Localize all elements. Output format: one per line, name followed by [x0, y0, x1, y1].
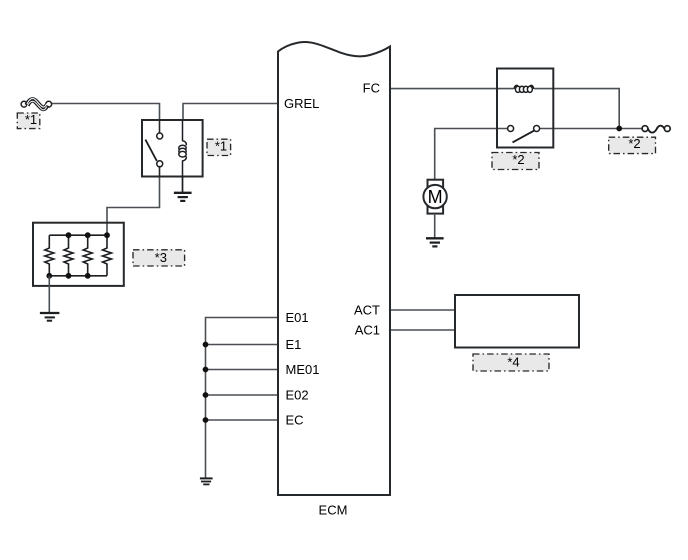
wire EC — [206, 419, 279, 421]
resistor R-b — [64, 235, 73, 276]
motor M1 housing — [428, 180, 444, 214]
ground (E rail) — [200, 478, 213, 484]
svg-text:M: M — [428, 187, 443, 207]
node EC junction — [203, 417, 209, 423]
fusible link *1 right terminal — [46, 101, 52, 107]
wire relay switch to resistor pack — [107, 177, 160, 236]
fuse *2 element — [648, 126, 665, 133]
svg-text:*4: *4 — [507, 354, 519, 369]
node E1 junction — [203, 342, 209, 348]
svg-text:ACT: ACT — [354, 302, 380, 317]
fusible link *1 wavy band — [27, 98, 47, 109]
svg-text:E01: E01 — [286, 310, 309, 325]
wire relay switch to motor — [435, 129, 508, 180]
relay R2 switch left contact — [508, 126, 514, 132]
ground (resistor pack) — [40, 313, 60, 321]
fusible link *1 left terminal — [21, 101, 27, 107]
wire E02 — [206, 394, 279, 396]
node junction FC/fuse — [616, 126, 622, 132]
resistor R-c — [83, 235, 92, 276]
resistor pack *3 box — [33, 223, 124, 286]
wire relay switch to fuse node — [540, 128, 642, 130]
ground (motor) — [426, 238, 444, 246]
label box *4 — [473, 354, 549, 371]
node top bus junctions — [66, 232, 110, 238]
relay R1 switch top contact — [157, 133, 163, 139]
wire resistor pack to ground — [48, 276, 50, 313]
svg-text:*1: *1 — [215, 138, 227, 153]
svg-text:EC: EC — [286, 413, 304, 428]
resistor R-a — [45, 235, 54, 276]
resistor R-d — [103, 235, 112, 276]
svg-text:E02: E02 — [286, 388, 309, 403]
node E02 junction — [203, 392, 209, 398]
wire ME01 — [206, 369, 279, 371]
component box *4 — [455, 295, 579, 348]
relay R2 switch blade — [513, 131, 535, 143]
label box *1 (relay) — [207, 138, 231, 155]
relay R2 switch right contact — [534, 126, 540, 132]
wire motor to ground — [434, 214, 436, 239]
resistor pack bottom bus — [49, 275, 107, 277]
svg-text:*1: *1 — [25, 112, 37, 127]
svg-text:*3: *3 — [155, 250, 167, 265]
wire FC to right relay and junction — [391, 89, 619, 129]
relay R2 coil (horizontal) — [514, 84, 535, 93]
wire fusible link to relay switch — [52, 104, 160, 121]
svg-text:ECM: ECM — [319, 503, 348, 518]
motor M1 body — [423, 185, 446, 208]
svg-text:*2: *2 — [628, 136, 640, 151]
node ME01 junction — [203, 367, 209, 373]
svg-text:*2: *2 — [512, 152, 524, 167]
ECM U1 box — [278, 42, 390, 495]
wire ACT — [391, 309, 455, 311]
relay R1 box — [142, 120, 203, 177]
relay R1 switch bottom contact — [157, 161, 163, 167]
svg-text:ME01: ME01 — [286, 362, 320, 377]
wire AC1 — [391, 329, 455, 331]
fuse *2 left terminal — [642, 126, 648, 132]
relay R1 switch wire stubs — [159, 120, 161, 177]
label box *1 (fusible link) — [17, 112, 40, 128]
label box *2 (relay) — [492, 152, 539, 170]
wire E01 rail — [206, 318, 279, 479]
svg-text:AC1: AC1 — [355, 322, 380, 337]
relay R2 box — [497, 69, 553, 148]
resistor pack top bus — [49, 234, 107, 236]
svg-text:GREL: GREL — [284, 96, 319, 111]
label box *2 (fuse) — [609, 136, 656, 153]
svg-text:FC: FC — [363, 81, 380, 96]
relay R1 coil — [179, 120, 187, 177]
node bottom bus junctions — [46, 273, 90, 279]
relay R1 switch blade — [145, 140, 156, 161]
wire E1 — [206, 344, 279, 346]
wire GREL to relay coil — [183, 104, 277, 121]
ground (relay R1 coil) — [174, 177, 192, 201]
fuse *2 right terminal — [664, 126, 670, 132]
svg-text:E1: E1 — [286, 337, 302, 352]
label box *3 — [133, 250, 185, 266]
